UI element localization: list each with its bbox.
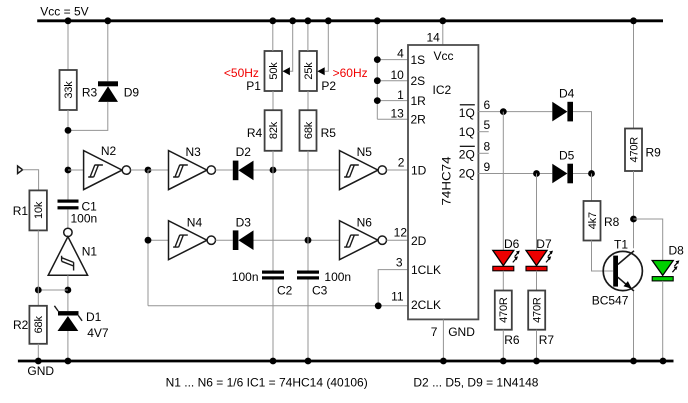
wire pin 7 [442,319,444,361]
resistor R7 [528,291,554,348]
resistor R1 [13,190,47,230]
svg-text:N3: N3 [186,145,202,159]
wire node to R2 [38,289,68,291]
wire N1 input down [67,275,69,311]
svg-text:R4: R4 [247,126,263,140]
svg-text:7: 7 [431,325,438,339]
svg-text:470R: 470R [498,297,510,323]
svg-text:Vcc = 5V: Vcc = 5V [40,5,88,19]
svg-text:R2: R2 [13,318,29,332]
wire pin 9 to D5 [478,173,552,175]
LED D7 [526,174,553,271]
wire R5 to C3 [307,151,309,271]
svg-text:50k: 50k [268,62,280,80]
wire P1 to R4 [272,91,274,110]
node R3/D9 [65,127,72,134]
svg-text:D2: D2 [236,145,252,159]
svg-text:D6: D6 [504,237,520,251]
svg-text:T1: T1 [614,238,628,252]
svg-text:33k: 33k [63,81,75,99]
wire R1 bottom [37,230,39,290]
svg-text:100n: 100n [324,270,351,284]
svg-text:D3: D3 [236,215,252,229]
svg-text:R8: R8 [604,215,620,229]
svg-text:10: 10 [390,68,404,82]
wire R3 bottom to C1 [67,110,69,200]
svg-text:1R: 1R [411,94,427,108]
diode D4 [552,87,574,122]
node R1/R2 [35,287,42,294]
diode D3 [233,215,254,250]
svg-text:P1: P1 [246,79,261,93]
wire 2CLK horizontal [148,305,408,307]
resistor R8 [584,201,620,241]
op-amp N1 (Schmitt inverter, pointing up) [48,228,97,275]
svg-text:74HC74: 74HC74 [440,156,454,205]
svg-text:3: 3 [396,256,403,270]
wire pin 8 stub [478,152,488,154]
wire N4 input [148,239,169,241]
input arrow [18,166,23,174]
wire C1 to N1 output [67,209,69,228]
wire P2 to R5 [307,91,309,110]
svg-text:10k: 10k [33,201,45,219]
node P2 chain row2 [305,237,312,244]
svg-text:D2 ... D5, D9 = 1N4148: D2 ... D5, D9 = 1N4148 [413,376,538,390]
wire N2 out [131,169,148,171]
node R9/collector/D8 [630,216,637,223]
wire node to R8 [591,174,593,202]
svg-text:N1: N1 [82,245,98,259]
wire node to N2 [68,169,84,171]
op-amp N2 (Schmitt inverter) [84,144,131,190]
node N2 input [65,167,72,174]
wire R8 to T1 base [592,241,613,272]
resistor R4 [247,110,282,151]
svg-text:2Q: 2Q [459,167,475,181]
svg-text:4V7: 4V7 [87,326,109,340]
svg-text:1Q: 1Q [459,125,475,139]
svg-text:GND: GND [448,325,475,339]
wire R6 bottom [502,330,504,361]
op-amp N4 [169,216,216,260]
wire P1 top [272,21,274,51]
resistor R3 [60,70,98,110]
svg-text:C3: C3 [312,284,328,298]
svg-text:2D: 2D [411,234,427,248]
svg-text:1: 1 [397,88,404,102]
wire pin 14 [442,21,444,45]
Vcc rail [37,5,663,21]
capacitor C2 [232,270,293,298]
wire P2 top [307,21,309,51]
svg-text:2S: 2S [411,74,426,88]
op-amp N5 [340,145,387,190]
wire C2 bottom [272,280,274,362]
wire D3 to N6 [254,239,340,241]
svg-text:GND: GND [27,364,54,378]
svg-text:4: 4 [397,47,404,61]
svg-text:D9: D9 [124,86,140,100]
svg-text:D7: D7 [536,237,552,251]
wire R2 top [37,290,39,306]
wire R9 top [633,21,635,129]
wire to N3 [148,169,169,171]
resistor R5 [300,110,337,151]
svg-text:68k: 68k [33,316,45,334]
svg-text:4k7: 4k7 [587,212,599,229]
svg-text:82k: 82k [268,121,280,139]
wire R4 to C2 [272,151,274,271]
svg-text:100n: 100n [232,270,259,284]
LED D8 [652,244,684,281]
capacitor C1 [58,200,98,226]
resistor R6 [495,291,520,348]
wire D7 to R7 [536,271,538,291]
svg-text:2R: 2R [411,112,427,126]
svg-text:1D: 1D [411,164,427,178]
svg-text:D8: D8 [669,244,685,258]
diode D5 [552,149,574,184]
svg-text:R9: R9 [646,146,662,160]
wire N3 out [216,169,233,171]
wire feedback vertical [147,170,149,306]
svg-text:1Q: 1Q [459,106,475,120]
op-amp N6 [340,216,387,260]
node N1 input/D1 [65,287,72,294]
svg-text:D1: D1 [86,310,102,324]
svg-text:100n: 100n [71,212,98,226]
wire D9 bottom [68,102,108,130]
svg-text:>60Hz: >60Hz [333,66,368,80]
svg-text:D4: D4 [559,87,575,101]
svg-text:IC2: IC2 [433,83,452,97]
LED D6 [493,112,520,271]
node dots GND rail [35,358,666,365]
node dots Vcc rail [65,17,637,24]
wire D1 bottom [67,331,69,361]
svg-text:1S: 1S [411,53,426,67]
wire R7 bottom [536,330,538,361]
wire R2 bottom [37,344,39,361]
wire T1 emitter to GND [633,292,635,362]
node CLK junction [375,302,382,309]
GND rail [18,361,674,378]
svg-text:470R: 470R [628,137,640,163]
svg-text:R7: R7 [539,333,555,347]
svg-text:2Q: 2Q [459,148,475,162]
wire N6 to 2D [387,239,409,241]
svg-text:C2: C2 [277,284,293,298]
wire N4 out [216,239,233,241]
op-amp N3 [169,145,216,190]
svg-text:N6: N6 [357,216,373,230]
node D4/D5/R8 [588,170,595,177]
wire D8 to GND [662,281,664,361]
svg-text:8: 8 [484,140,491,154]
svg-text:D5: D5 [559,149,575,163]
svg-text:N2: N2 [101,144,117,158]
svg-text:11: 11 [391,290,404,304]
svg-text:P2: P2 [321,79,336,93]
wire input to R1 [23,170,39,191]
wire R9 bottom [633,171,635,248]
svg-text:2CLK: 2CLK [411,298,441,312]
potentiometer P2 [299,21,336,93]
svg-text:N5: N5 [357,145,373,159]
svg-text:12: 12 [394,226,408,240]
svg-text:68k: 68k [303,121,315,139]
zener D1 [54,306,108,340]
wire C3 bottom [307,280,309,362]
capacitor C3 [297,270,351,298]
wire D5 to node [573,173,592,175]
wire pin 6 to D4 [478,111,552,113]
wire S/R bus [374,21,408,119]
svg-text:470R: 470R [532,297,544,323]
wire pin 5 stub [478,131,488,133]
node D6 tap [500,108,507,115]
svg-text:9: 9 [484,160,491,174]
node D7 tap [533,170,540,177]
resistor R9 [625,129,661,172]
node P1 chain row1 [270,167,277,174]
svg-text:<50Hz: <50Hz [224,66,259,80]
wire D2 to N5 [254,169,340,171]
node N4 input [145,237,152,244]
svg-text:R6: R6 [504,333,520,347]
svg-text:14: 14 [427,31,441,45]
potentiometer P1 [246,21,293,93]
svg-text:25k: 25k [303,62,315,80]
svg-text:R3: R3 [82,85,98,99]
svg-text:6: 6 [484,98,491,112]
svg-text:N4: N4 [187,216,203,230]
wire R3 top [67,21,69,70]
svg-text:5: 5 [484,118,491,132]
diode D2 [233,145,254,180]
wire N5 to 1D [387,169,409,171]
IC U1 74HC74 box [390,31,490,339]
diode D9 [98,81,139,102]
svg-text:N1 ... N6 = 1/6 IC1 = 74HC14 (: N1 ... N6 = 1/6 IC1 = 74HC14 (40106) [166,376,368,390]
svg-text:13: 13 [390,107,404,121]
transistor T1 BC547 [592,238,643,308]
wire D6 to R6 [502,271,504,291]
svg-text:BC547: BC547 [592,293,629,307]
node N2 out [145,167,152,174]
svg-text:1CLK: 1CLK [411,263,441,277]
wire 1CLK [378,270,408,306]
svg-text:R5: R5 [321,126,337,140]
svg-text:Vcc: Vcc [434,49,454,63]
wire D9 top [107,21,109,81]
svg-text:2: 2 [398,156,405,170]
wire D4 to node [573,112,592,174]
wire node to D8 [634,219,663,261]
resistor R2 [13,306,47,344]
svg-text:R1: R1 [13,204,29,218]
